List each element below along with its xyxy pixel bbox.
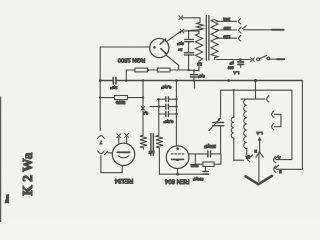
secondary top lead: [158, 99, 160, 135]
mains plug pin + wire: [243, 26, 247, 29]
switch row wire: [217, 59, 251, 61]
interstage secondary: [156, 135, 163, 149]
speaker jack J3: [272, 123, 274, 129]
tap 220: [217, 29, 236, 31]
output tube REN804: [166, 146, 189, 169]
resistor box 1: [135, 68, 148, 72]
feed vertical to interstage: [142, 81, 144, 136]
secondary bottom to REN filament: [159, 149, 177, 174]
rectifier tube RGN1500: [150, 38, 169, 57]
node on bus left: [99, 79, 102, 82]
wire: left vertical main: [100, 47, 149, 130]
capacitor 6uF to bus: [193, 71, 195, 75]
detector coil loops: [231, 117, 234, 138]
main bus: [100, 80, 113, 82]
plug a chevron: [248, 155, 250, 161]
wire between caps: [188, 42, 190, 52]
wire from x1 to heater winding: [183, 18, 200, 23]
stub below bus: [194, 81, 196, 89]
resistor box 2: [158, 68, 171, 72]
filament row right: [178, 173, 209, 175]
wire cap stack down: [188, 55, 190, 70]
outer loop right: [301, 81, 303, 170]
speaker jack J2: [272, 111, 274, 118]
output choke loops: [244, 99, 247, 149]
wire: tube anode diagonal to node: [166, 31, 181, 41]
interstage core: [150, 134, 152, 156]
terminal x2: [180, 29, 184, 33]
wire plug E to outer loop: [276, 168, 302, 170]
paper noise overlay: [0, 0, 1, 1]
wire: tube lower diagonal: [166, 55, 178, 70]
speaker jack J1: [267, 96, 269, 103]
capacitor 6uF a: [185, 38, 194, 40]
detector coil branch: [233, 90, 235, 117]
bus junction dots: [125, 79, 128, 82]
interstage transformer primary: [140, 135, 147, 149]
wire: node to capacitor stack: [184, 31, 189, 38]
tap 120: [217, 37, 236, 39]
grid cap 250pF: [207, 151, 209, 157]
anode vertical REN804: [175, 81, 177, 146]
capacitor 300 (L.A.): [240, 60, 242, 62]
jack lower chevron: [98, 151, 105, 154]
heater winding: [197, 22, 204, 29]
dropper resistor row: [126, 70, 135, 81]
transformer core: [205, 16, 207, 61]
wire winding to x2: [184, 30, 200, 31]
scan edge shadow: [0, 97, 2, 222]
jack upper chevron: [98, 136, 105, 139]
coupling cap row3: [159, 113, 165, 115]
U link J2-J3: [274, 114, 281, 126]
resistor 5150 row: [100, 97, 114, 99]
grid stub RE134: [108, 152, 113, 154]
variable capacitor: [213, 122, 224, 124]
tuning line top: [221, 90, 234, 116]
tap 242: [215, 20, 237, 22]
earth arrow head: [246, 176, 272, 184]
primary winding: [211, 20, 218, 60]
REN804 bottom lead: [177, 169, 179, 175]
grid row REN: [189, 153, 208, 155]
capacitor 2uF in bus: [112, 77, 114, 83]
plug A: [274, 156, 276, 162]
coupling cap row2: [150, 106, 165, 108]
plug E: [274, 166, 276, 172]
HT secondary winding: [189, 31, 203, 71]
inner loop right side: [276, 90, 292, 159]
RE134 top leads: [118, 138, 120, 144]
terminal x grid: [141, 106, 145, 110]
wire jack to RE134 filament: [101, 156, 122, 173]
capacitor 6uF b: [184, 52, 193, 54]
switch contacts: [257, 58, 260, 61]
bypass cap 300uF: [205, 166, 207, 171]
terminal x1: [179, 16, 183, 20]
earth arrow line: [258, 152, 260, 182]
coupling cap row1: [158, 98, 166, 100]
choke feed from bus: [256, 81, 265, 100]
terminal x switch: [251, 58, 255, 62]
grid leak 2M: [194, 154, 196, 164]
triode RE134: [112, 143, 134, 165]
